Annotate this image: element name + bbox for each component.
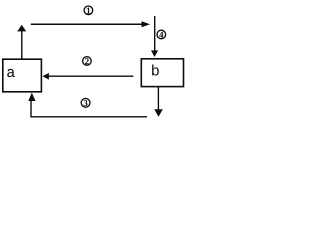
label a	[7, 69, 15, 77]
label 1	[84, 6, 93, 15]
wire 3 vertical	[30, 101, 32, 118]
wire up from a	[21, 31, 23, 59]
block b	[141, 59, 183, 87]
arrowhead down from b	[154, 109, 163, 117]
wire 3 horizontal	[30, 116, 147, 118]
wire down from b	[157, 87, 159, 110]
arrowhead up from a	[17, 25, 26, 32]
arrowhead right wire 1	[142, 21, 151, 27]
block a	[3, 59, 42, 92]
label b	[152, 65, 159, 76]
wire 2 (middle horizontal)	[49, 75, 134, 77]
arrowhead left wire 2	[43, 73, 49, 80]
label 3	[81, 98, 90, 107]
wire 1 (top horizontal)	[31, 23, 142, 25]
label 2	[83, 57, 92, 66]
wire 4 (vertical into b)	[154, 16, 156, 51]
arrowhead down wire 4	[151, 50, 158, 57]
arrowhead up wire 3	[28, 93, 35, 101]
label 4	[157, 30, 166, 39]
